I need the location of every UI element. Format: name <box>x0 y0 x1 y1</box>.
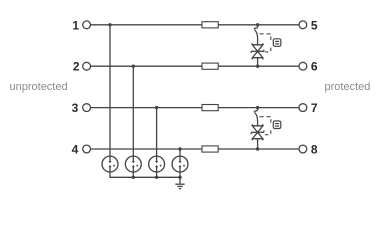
junction bus/F2 <box>132 176 135 179</box>
resistor on line 2 <box>202 63 218 69</box>
wire line 1 (terminal 1 to terminal 5) <box>91 24 299 26</box>
junction line8/branchB bottom <box>256 147 259 150</box>
terminal 4 <box>83 145 91 153</box>
ground <box>175 177 184 188</box>
terminal 8 <box>299 145 307 153</box>
wire line 3 (terminal 3 to terminal 7) <box>91 107 299 109</box>
terminal 5 <box>299 21 307 29</box>
gas discharge tube F4 <box>172 156 188 172</box>
wire stub F4 to ground bus <box>179 172 181 177</box>
resistor on line 3 <box>202 105 218 111</box>
junction line7/branchB top <box>256 106 259 109</box>
svg-text:4: 4 <box>72 143 79 157</box>
status indicator A <box>273 39 281 47</box>
wire vertical drop from line 1 to arrester F1 <box>109 25 111 156</box>
dashed linkage to indicator B <box>260 117 271 135</box>
junction bus/ground <box>178 176 181 179</box>
junction line3/drop3 <box>155 106 158 109</box>
terminal 6 <box>299 62 307 70</box>
thermal disconnect on suppressor branch A <box>254 25 258 45</box>
wire line 2 (terminal 2 to terminal 6) <box>91 65 299 67</box>
wire ground bus <box>109 176 180 178</box>
junction bus/F3 <box>155 176 158 179</box>
svg-text:5: 5 <box>311 18 318 32</box>
junction line6/branchA bottom <box>256 65 259 68</box>
wire stub F2 to ground bus <box>132 172 134 177</box>
gas discharge tube F3 <box>149 156 165 172</box>
resistor on line 4 <box>202 146 218 152</box>
wire vertical drop from line 4 to arrester F4 <box>179 149 181 156</box>
thermal disconnect on suppressor branch B <box>254 108 258 126</box>
svg-text:1: 1 <box>72 18 79 32</box>
wire vertical drop from line 3 to arrester F3 <box>156 108 158 157</box>
svg-text:3: 3 <box>72 101 79 115</box>
resistor on line 1 <box>202 22 218 28</box>
svg-text:8: 8 <box>311 143 318 157</box>
wire vertical drop from line 2 to arrester F2 <box>132 66 134 156</box>
dashed linkage to indicator A <box>260 34 271 52</box>
svg-text:protected: protected <box>325 81 371 93</box>
terminal 3 <box>83 104 91 112</box>
svg-text:unprotected: unprotected <box>10 81 68 93</box>
wire stub F3 to ground bus <box>156 172 158 177</box>
junction line1/drop1 <box>108 23 111 26</box>
svg-text:6: 6 <box>311 60 318 74</box>
wire stub F1 to ground bus <box>109 172 111 177</box>
gas discharge tube F2 <box>125 156 141 172</box>
junction line4/drop4 <box>178 147 181 150</box>
gas discharge tube F1 <box>102 156 118 172</box>
svg-text:2: 2 <box>73 60 80 74</box>
svg-text:7: 7 <box>311 101 318 115</box>
terminal 7 <box>299 104 307 112</box>
terminal 1 <box>83 21 91 29</box>
suppressor diode V2 (bidirectional) <box>251 124 264 149</box>
suppressor diode V1 (bidirectional) <box>251 43 264 66</box>
wire line 4 (terminal 4 to terminal 8) <box>91 148 299 150</box>
status indicator B <box>273 121 281 129</box>
terminal 2 <box>83 62 91 70</box>
junction line5/branchA top <box>256 23 259 26</box>
junction line2/drop2 <box>132 65 135 68</box>
